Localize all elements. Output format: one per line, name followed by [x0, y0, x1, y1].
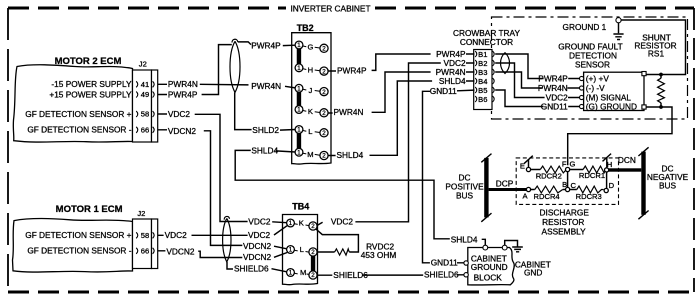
svg-text:L: L: [308, 127, 312, 136]
svg-text:K: K: [308, 107, 313, 116]
svg-text:PWR4N: PWR4N: [538, 83, 568, 93]
svg-text:(-) -V: (-) -V: [586, 83, 605, 93]
svg-text:SHLD4: SHLD4: [451, 234, 478, 244]
svg-text:SHLD4: SHLD4: [439, 76, 466, 86]
svg-text:C: C: [570, 181, 576, 190]
svg-text:B6: B6: [478, 95, 487, 104]
svg-text:G: G: [569, 159, 575, 168]
svg-text:BUS: BUS: [456, 190, 474, 200]
svg-text:K: K: [299, 219, 304, 228]
svg-text:VDCN2: VDCN2: [166, 246, 195, 256]
svg-text:E: E: [520, 162, 525, 171]
svg-text:VDC2: VDC2: [248, 216, 271, 226]
svg-text:1: 1: [289, 247, 293, 254]
svg-text:L: L: [300, 245, 304, 254]
svg-text:B2: B2: [478, 59, 487, 68]
svg-text:(G) GROUND: (G) GROUND: [586, 101, 637, 111]
svg-text:G: G: [307, 43, 313, 52]
svg-text:M: M: [300, 268, 306, 277]
svg-text:1: 1: [297, 42, 301, 49]
svg-text:GF DETECTION SENSOR -: GF DETECTION SENSOR -: [27, 125, 131, 135]
svg-text:RDCR3: RDCR3: [576, 192, 602, 201]
svg-text:PWR4N: PWR4N: [251, 81, 281, 91]
svg-text:2: 2: [322, 46, 326, 53]
svg-text:GND11: GND11: [430, 86, 457, 96]
svg-text:ASSEMBLY: ASSEMBLY: [542, 227, 587, 237]
svg-text:H: H: [308, 65, 313, 74]
svg-text:SHIELD6: SHIELD6: [234, 263, 269, 273]
svg-text:DISCHARGE: DISCHARGE: [540, 207, 590, 217]
svg-text:TB2: TB2: [297, 23, 314, 33]
svg-text:1: 1: [289, 220, 293, 227]
svg-text:CONNECTOR: CONNECTOR: [460, 37, 513, 47]
svg-text:GND11: GND11: [541, 101, 568, 111]
svg-text:PWR4N: PWR4N: [334, 107, 364, 117]
svg-text:-15 POWER SUPPLY: -15 POWER SUPPLY: [51, 79, 132, 89]
svg-text:B4: B4: [478, 77, 487, 86]
svg-text:B1: B1: [478, 50, 487, 59]
svg-text:B: B: [562, 180, 567, 189]
svg-text:+15 POWER SUPPLY: +15 POWER SUPPLY: [49, 89, 132, 99]
svg-text:1: 1: [297, 149, 301, 156]
svg-text:66: 66: [141, 126, 149, 135]
svg-text:2: 2: [322, 68, 326, 75]
svg-text:F: F: [562, 159, 567, 168]
svg-text:2: 2: [311, 223, 315, 230]
svg-text:GF DETECTION SENSOR +: GF DETECTION SENSOR +: [25, 230, 131, 240]
svg-text:PWR4P: PWR4P: [337, 65, 367, 75]
svg-text:RESISTOR: RESISTOR: [542, 217, 584, 227]
svg-text:PWR4P: PWR4P: [538, 73, 568, 83]
svg-text:BUS: BUS: [659, 180, 677, 190]
svg-text:1: 1: [297, 127, 301, 134]
svg-text:VDCN2: VDCN2: [243, 241, 272, 251]
svg-text:1: 1: [297, 86, 301, 93]
svg-text:66: 66: [141, 247, 149, 256]
svg-text:INVERTER CABINET: INVERTER CABINET: [290, 3, 370, 13]
svg-text:GROUND: GROUND: [471, 262, 508, 272]
svg-text:VDC2: VDC2: [248, 230, 271, 240]
svg-text:41: 41: [141, 80, 149, 89]
svg-text:2: 2: [322, 153, 326, 160]
svg-text:2: 2: [311, 272, 315, 279]
svg-text:BLOCK: BLOCK: [474, 273, 503, 283]
svg-text:H: H: [607, 160, 612, 169]
svg-text:1: 1: [289, 270, 293, 277]
svg-text:SHLD4: SHLD4: [337, 150, 364, 160]
svg-text:PWR4P: PWR4P: [251, 41, 281, 51]
svg-text:J: J: [309, 86, 313, 95]
svg-text:49: 49: [141, 90, 149, 99]
svg-text:VDCN2: VDCN2: [243, 252, 272, 262]
svg-text:PWR4N: PWR4N: [168, 79, 198, 89]
svg-text:B3: B3: [478, 68, 487, 77]
svg-text:GF DETECTION SENSOR +: GF DETECTION SENSOR +: [25, 109, 131, 119]
svg-text:VDC2: VDC2: [165, 230, 188, 240]
svg-text:MOTOR 2 ECM: MOTOR 2 ECM: [55, 56, 122, 67]
svg-text:RDCR4: RDCR4: [534, 192, 560, 201]
svg-text:453 OHM: 453 OHM: [361, 250, 397, 260]
svg-text:SHIELD6: SHIELD6: [424, 270, 459, 280]
svg-text:GF DETECTION SENSOR -: GF DETECTION SENSOR -: [27, 246, 131, 256]
svg-text:58: 58: [141, 110, 149, 119]
svg-text:58: 58: [141, 231, 149, 240]
svg-text:RS1: RS1: [648, 48, 665, 58]
svg-text:SHLD2: SHLD2: [252, 125, 279, 135]
svg-text:DCP: DCP: [496, 178, 514, 188]
svg-text:TB4: TB4: [292, 202, 309, 212]
svg-text:GND: GND: [524, 267, 542, 277]
svg-text:D: D: [609, 181, 615, 190]
svg-text:SHLD4: SHLD4: [251, 145, 278, 155]
svg-text:1: 1: [297, 107, 301, 114]
svg-text:VDCN2: VDCN2: [168, 126, 197, 136]
svg-text:1: 1: [297, 65, 301, 72]
svg-text:2: 2: [311, 249, 315, 256]
svg-text:(+) +V: (+) +V: [586, 73, 610, 83]
svg-text:B5: B5: [478, 86, 487, 95]
svg-text:2: 2: [322, 89, 326, 96]
svg-text:GND11: GND11: [431, 258, 458, 268]
svg-text:M: M: [307, 150, 313, 159]
svg-text:2: 2: [322, 110, 326, 117]
svg-text:RDCR1: RDCR1: [579, 171, 605, 180]
svg-text:GROUND 1: GROUND 1: [563, 22, 607, 32]
svg-text:SHIELD6: SHIELD6: [333, 270, 368, 280]
svg-text:MOTOR 1 ECM: MOTOR 1 ECM: [56, 204, 123, 215]
svg-text:J2: J2: [137, 209, 145, 218]
svg-text:J2: J2: [139, 60, 147, 69]
svg-text:SENSOR: SENSOR: [575, 59, 610, 69]
svg-text:2: 2: [322, 130, 326, 137]
svg-text:PWR4P: PWR4P: [168, 89, 198, 99]
svg-text:VDC2: VDC2: [331, 217, 354, 227]
svg-text:VDC2: VDC2: [168, 109, 191, 119]
svg-text:DCN: DCN: [618, 155, 636, 165]
svg-text:RDCR2: RDCR2: [536, 172, 562, 181]
